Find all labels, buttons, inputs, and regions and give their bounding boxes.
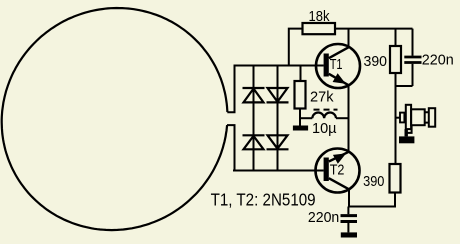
inductor L1 10u bbox=[300, 110, 348, 119]
resistor R1 18k bbox=[289, 23, 413, 66]
svg-text:T1, T2: 2N5109: T1, T2: 2N5109 bbox=[211, 190, 316, 210]
resistor R2 27k bbox=[295, 66, 306, 126]
svg-text:220n: 220n bbox=[308, 209, 339, 226]
wire main vertical to connector bbox=[395, 86, 397, 164]
svg-text:220n: 220n bbox=[422, 52, 454, 69]
resistor R3 390 top bbox=[390, 29, 413, 86]
svg-text:390: 390 bbox=[363, 173, 384, 190]
svg-text:T2: T2 bbox=[330, 162, 345, 178]
transistor Q2 T2 bbox=[316, 149, 360, 193]
resistor R4 390 bottom bbox=[348, 164, 400, 207]
wire T1 collector up bbox=[348, 29, 350, 48]
svg-text:T1: T1 bbox=[330, 57, 343, 73]
svg-text:18k: 18k bbox=[309, 8, 330, 25]
diode D4 (down) bbox=[267, 135, 289, 149]
wire right diode column bbox=[277, 66, 279, 171]
wire T2 collector down bbox=[348, 189, 350, 207]
wire top rail (T1 base net) bbox=[234, 65, 324, 67]
connector J1 bbox=[396, 105, 436, 137]
diode D1 (up) bbox=[243, 88, 265, 102]
wire loop upper terminal jog bbox=[227, 66, 234, 113]
svg-text:27k: 27k bbox=[310, 88, 334, 105]
wire loop lower terminal jog bbox=[227, 125, 235, 170]
transistor Q1 T1 bbox=[316, 44, 360, 88]
capacitor C1 220n top bbox=[404, 29, 421, 86]
loop antenna circle bbox=[2, 8, 228, 230]
capacitor C2 220n bottom bbox=[341, 207, 358, 233]
ground under connector bbox=[399, 136, 414, 143]
ground under 27k bbox=[293, 126, 308, 131]
svg-text:390: 390 bbox=[364, 53, 388, 70]
wire T1 emitter to T2 emitter bbox=[348, 85, 350, 152]
diode D2 (down) bbox=[267, 88, 289, 102]
svg-text:10µ: 10µ bbox=[312, 120, 337, 137]
wire left diode column bbox=[253, 66, 255, 171]
ground under C2 bbox=[341, 232, 357, 237]
diode D3 (up) bbox=[243, 135, 265, 149]
wire bottom rail (T2 base net) bbox=[233, 170, 324, 172]
